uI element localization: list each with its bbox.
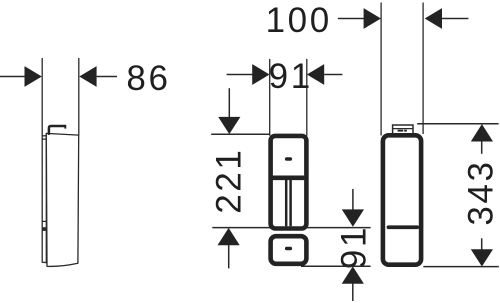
- wire: leader line right of 91 arrow: [324, 74, 342, 76]
- svg-text:91: 91: [334, 225, 373, 269]
- wire: leader line right of 86 arrow: [97, 76, 117, 78]
- arrow: 86 right, pointing left: [79, 66, 96, 87]
- divider: [271, 176, 307, 181]
- wire: 221 upper stem: [228, 88, 230, 117]
- bracket tick 1: [42, 135, 46, 137]
- wire: 91b bottom extension line: [301, 265, 371, 267]
- wire: 91b upper stem: [352, 189, 354, 210]
- wire: 343 top extension line: [417, 123, 498, 125]
- arrow: 100 left, pointing right: [364, 8, 381, 29]
- wire: shared extension line at y=227.6: [212, 227, 370, 229]
- upper dash (logo): [285, 157, 292, 161]
- wire: 91 right extension line: [306, 59, 308, 136]
- small bottom box: [271, 236, 307, 264]
- cap on top: [393, 125, 413, 134]
- arrow: 91 left, pointing right: [252, 64, 269, 85]
- arrow: 221 top, pointing down: [218, 117, 240, 134]
- arrow: 91b bottom, pointing up: [342, 266, 364, 283]
- cap logo dash long: [398, 130, 404, 132]
- arrow: 343 top, pointing up: [471, 124, 493, 141]
- wire: leader line right of 100 arrow: [442, 18, 468, 20]
- wire: 343 upper stem: [481, 141, 483, 154]
- slot dash: [387, 225, 420, 229]
- inner vertical line left: [285, 180, 288, 226]
- cap inner line: [393, 128, 413, 130]
- arrow: 91b top, pointing down: [342, 209, 364, 226]
- wire: 221 lower stem: [228, 245, 230, 269]
- bracket right edge line: [45, 133, 47, 263]
- svg-text:221: 221: [210, 148, 249, 214]
- lower dash: [285, 247, 292, 251]
- svg-text:100: 100: [266, 1, 332, 40]
- wire: 100 left extension line: [380, 3, 382, 136]
- svg-text:86: 86: [126, 59, 170, 98]
- arrow: 343 bottom, pointing down: [471, 249, 493, 266]
- svg-text:91: 91: [269, 57, 313, 96]
- wire: 343 bottom extension line: [423, 266, 499, 268]
- wire: leader line left of 100 arrow: [338, 18, 364, 20]
- arrow: 86 left, pointing right: [25, 66, 42, 87]
- wire: 343 lower stem: [481, 238, 483, 250]
- main body rounded rect: [383, 135, 421, 264]
- bracket tick 2: [42, 138, 46, 140]
- wire: leader line left of 91 arrow: [227, 74, 253, 76]
- svg-text:343: 343: [462, 159, 500, 225]
- hook end tick: [64, 125, 66, 129]
- body outline (side view): [46, 133, 78, 266]
- bracket bottom tick: [42, 261, 46, 263]
- wire: leader line left of 86 arrow: [0, 76, 25, 78]
- wire: 221 top extension line: [211, 133, 270, 135]
- hook (wall clip): [49, 126, 65, 134]
- arrow: 100 right, pointing left: [425, 8, 442, 29]
- wire: 91 left extension line: [269, 59, 271, 136]
- arrow: 221 bottom, pointing up: [218, 228, 240, 245]
- arrow: 91 right, pointing left: [307, 64, 324, 85]
- wire: 91b lower stem: [352, 283, 354, 301]
- wire: 86 left extension line: [41, 58, 43, 263]
- cap logo dash short: [404, 130, 407, 132]
- inner vertical line right: [289, 180, 292, 226]
- main body rounded rect: [271, 136, 307, 229]
- bracket clamp block: [42, 227, 46, 231]
- wire: 100 right extension line: [422, 3, 424, 135]
- bracket tick 3: [42, 220, 46, 222]
- wire: 86 right extension line: [78, 58, 80, 135]
